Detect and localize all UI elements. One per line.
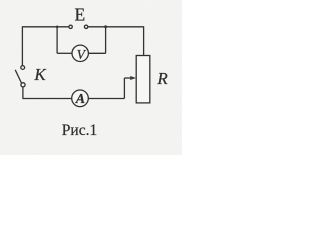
wire: wiper arrow shaft	[124, 77, 131, 79]
wire: voltmeter branch left stub	[57, 52, 72, 54]
wire: voltmeter branch left vertical	[56, 27, 58, 54]
wire: voltmeter branch right stub	[88, 52, 105, 54]
ammeter A circle	[72, 90, 89, 107]
svg-text:A: A	[75, 92, 85, 107]
wire: top-left horizontal to E left terminal	[22, 26, 68, 28]
node junction dot (voltmeter branch left tap)	[56, 26, 59, 29]
switch K lower terminal circle	[21, 83, 25, 87]
svg-text:E: E	[74, 5, 85, 25]
wire: top horizontal from E right terminal to top-right corner	[88, 26, 144, 28]
svg-text:Рис.1: Рис.1	[62, 122, 97, 139]
svg-text:K: K	[33, 65, 47, 84]
wire: from switch lower terminal down to bottom-left corner	[22, 87, 24, 99]
wire: from ammeter right to wiper riser	[88, 98, 124, 100]
paper grain	[0, 0, 182, 155]
wire: wiper riser vertical	[123, 78, 125, 99]
svg-text:R: R	[156, 69, 168, 88]
voltmeter V circle	[72, 45, 88, 61]
battery/source terminal right circle (E)	[84, 25, 87, 28]
wire: voltmeter branch right vertical up to top wire	[105, 27, 107, 54]
switch K blade (open)	[15, 70, 21, 83]
wire: left vertical from top corner down to switch	[21, 26, 23, 65]
switch K upper terminal circle	[21, 66, 25, 70]
battery/source terminal left circle (E)	[69, 25, 72, 28]
rheostat arrow head (wiper)	[130, 76, 136, 80]
background paper	[0, 0, 182, 155]
node junction dot (voltmeter branch right tap)	[104, 25, 107, 28]
wire: bottom horizontal to ammeter	[22, 98, 71, 100]
resistor R rheostat body rectangle	[136, 56, 150, 103]
wire: right vertical from top corner down to rheostat top	[143, 26, 145, 55]
